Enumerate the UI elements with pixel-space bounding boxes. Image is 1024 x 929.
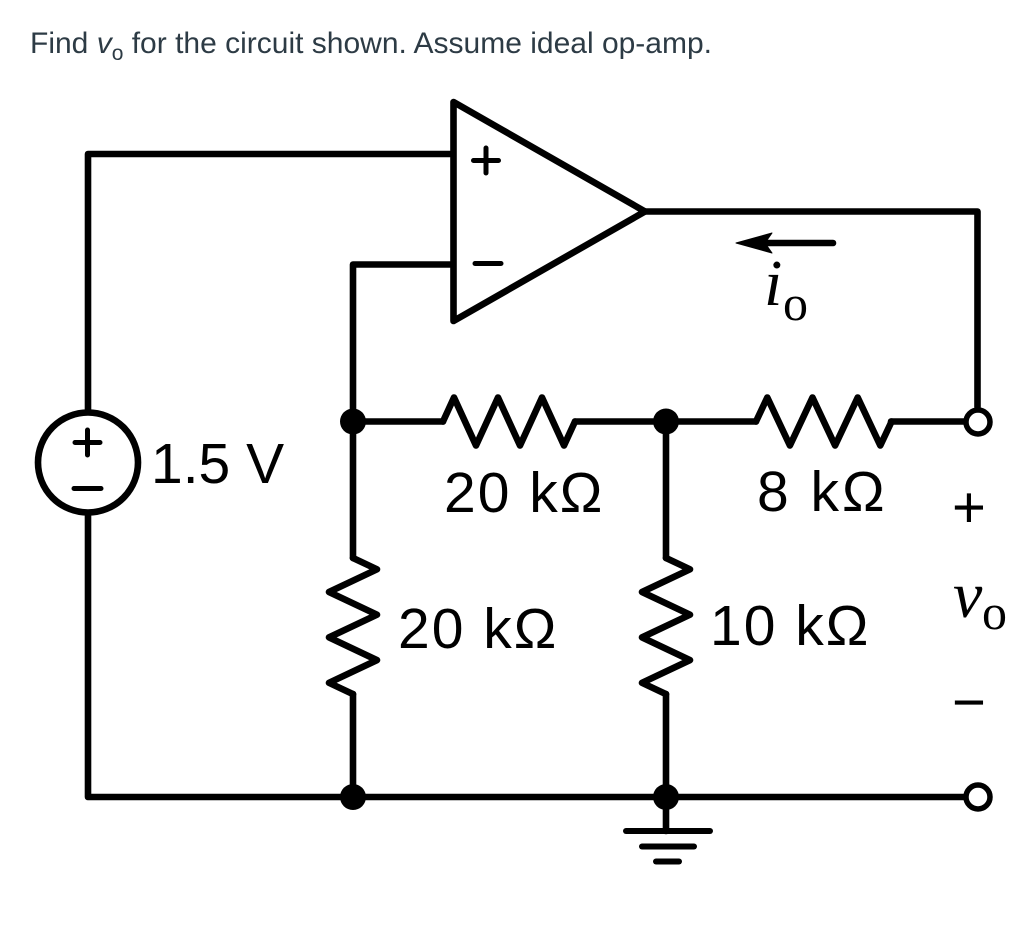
voltage source V1 circle <box>38 413 138 513</box>
svg-text:i: i <box>764 247 782 320</box>
svg-text:10 kΩ: 10 kΩ <box>710 594 870 658</box>
wire node B to resistor 8k <box>679 418 756 425</box>
ground stub wire <box>663 797 670 831</box>
svg-text:20 kΩ: 20 kΩ <box>444 461 604 525</box>
svg-text:v: v <box>953 559 983 632</box>
wire resistor R4 to bottom rail <box>663 694 670 797</box>
arrow for current io pointing left <box>764 240 833 247</box>
resistor R1 20k horizontal zigzag <box>443 398 575 446</box>
wire from op-amp output right and down to output + terminal <box>645 212 978 408</box>
wire from source - terminal down to bottom rail and right to output - terminal <box>88 513 965 797</box>
node C dot (bottom left) <box>340 784 366 810</box>
terminal open circle output - <box>966 785 990 809</box>
ground bar 3 <box>656 859 679 865</box>
resistor R3 20k vertical zigzag <box>329 558 377 694</box>
wire from source + terminal up and right to op-amp noninverting input <box>88 154 450 412</box>
wire node A to resistor 20k horizontal <box>353 418 443 425</box>
node B dot (middle node) <box>653 409 679 435</box>
wire node B down to resistor 10k vertical <box>663 422 670 559</box>
resistor R2 8k horizontal zigzag <box>756 398 892 446</box>
ground bar 2 <box>642 844 694 850</box>
wire node A down to resistor 20k vertical <box>350 422 357 559</box>
op-amp plus input marker <box>474 148 499 173</box>
op-amp U1 triangle <box>454 102 646 321</box>
op-amp minus input marker <box>475 261 501 266</box>
voltage source minus sign <box>74 486 101 491</box>
svg-text:o: o <box>783 275 808 331</box>
svg-text:1.5 V: 1.5 V <box>151 432 284 496</box>
wire resistor R3 to bottom rail <box>350 694 357 797</box>
svg-text:20 kΩ: 20 kΩ <box>398 597 558 661</box>
terminal open circle output + <box>966 410 990 434</box>
svg-text:o: o <box>982 584 1007 640</box>
voltage source plus sign <box>75 430 100 455</box>
title text <box>30 29 712 59</box>
wire from op-amp inverting input left and down to feedback node <box>353 265 450 416</box>
wire resistor R1 to node B <box>575 418 653 425</box>
svg-text:8 kΩ: 8 kΩ <box>757 460 888 524</box>
svg-text:−: − <box>952 670 986 735</box>
node D dot (ground node) <box>653 784 679 810</box>
ground bar 1 <box>626 828 710 834</box>
wire resistor R2 to output + terminal <box>891 418 964 425</box>
node A dot (feedback node) <box>340 409 366 435</box>
svg-text:+: + <box>952 475 986 540</box>
resistor R4 10k vertical zigzag <box>642 558 690 694</box>
